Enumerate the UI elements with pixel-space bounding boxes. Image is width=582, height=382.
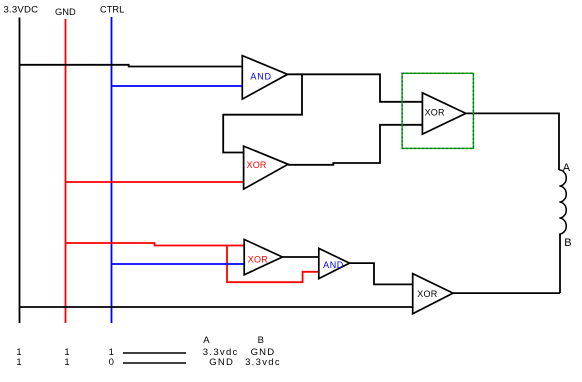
svg-text:A: A <box>203 335 210 346</box>
svg-text:B: B <box>564 237 571 249</box>
svg-text:XOR: XOR <box>425 108 445 118</box>
svg-text:1: 1 <box>64 357 69 368</box>
svg-text:XOR: XOR <box>417 289 437 299</box>
svg-text:XOR: XOR <box>248 255 268 265</box>
svg-text:XOR: XOR <box>247 160 267 170</box>
svg-text:1: 1 <box>16 357 21 368</box>
svg-text:AND: AND <box>323 260 344 270</box>
svg-text:0: 0 <box>109 357 114 368</box>
svg-text:GND: GND <box>209 357 234 368</box>
svg-text:A: A <box>563 162 571 174</box>
svg-text:AND: AND <box>250 71 271 81</box>
svg-text:B: B <box>258 335 264 346</box>
svg-text:3.3vdc: 3.3vdc <box>245 357 281 368</box>
svg-text:3.3VDC: 3.3VDC <box>4 5 39 16</box>
svg-text:GND: GND <box>55 7 76 17</box>
svg-text:CTRL: CTRL <box>100 5 124 15</box>
